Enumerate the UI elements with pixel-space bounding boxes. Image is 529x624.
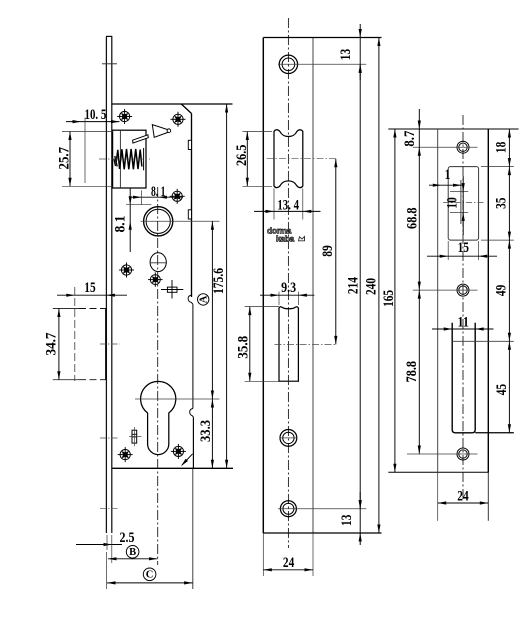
dim 25.7 line — [69, 132, 71, 187]
dim 13 top line — [359, 24, 361, 80]
hidden slot bottom edge — [53, 379, 79, 381]
plate ext ticks — [106, 535, 108, 550]
screw hole mid — [280, 430, 297, 447]
fixing cross — [161, 289, 183, 291]
faceplate top edge — [106, 35, 112, 37]
centreline — [287, 18, 289, 548]
strike hole 1 — [457, 141, 469, 153]
dim 34.7 line — [58, 309, 60, 380]
dim 35 line — [508, 167, 510, 241]
dim 49 ext — [481, 239, 514, 241]
dim 15 line — [57, 294, 127, 296]
svg-text:kaba: kaba — [276, 234, 294, 244]
slot bottom extension — [475, 432, 514, 434]
svg-text:10: 10 — [444, 197, 460, 208]
label A — [198, 294, 209, 305]
dim 10 line — [462, 176, 464, 235]
svg-text:B: B — [129, 547, 136, 558]
svg-text:26.5: 26.5 — [234, 145, 250, 167]
case right edge lower — [192, 417, 194, 468]
svg-text:1: 1 — [445, 167, 451, 183]
dim 8.1 h line — [131, 196, 184, 198]
guide oval — [150, 253, 166, 272]
dim 24 line — [263, 569, 313, 571]
hole2 centreline — [413, 289, 478, 291]
dim 15 line — [427, 255, 497, 257]
svg-text:68.8: 68.8 — [405, 207, 421, 229]
deadbolt slot — [452, 323, 475, 433]
follower hole — [144, 207, 173, 236]
dim 35.8 line — [249, 307, 251, 382]
hole bottom centreline — [278, 508, 366, 510]
extension line x85 — [84, 118, 86, 184]
corner leader arrow — [182, 454, 193, 465]
hole mid tick — [280, 437, 298, 439]
latch spring — [116, 149, 142, 169]
faceplate edge (front) — [105, 36, 107, 533]
latch head wedge — [152, 125, 170, 138]
svg-text:13: 13 — [338, 49, 354, 60]
svg-text:9.3: 9.3 — [281, 280, 296, 296]
faceplate left edge — [262, 38, 264, 534]
hole1 centreline — [413, 146, 478, 148]
hole centre tick top — [102, 63, 117, 65]
case top edge — [112, 103, 233, 105]
svg-text:C: C — [146, 570, 154, 581]
dim 1 leader — [429, 184, 463, 186]
screw C — [170, 189, 185, 204]
screw A — [117, 109, 132, 124]
dim 2.5 leader — [76, 544, 122, 546]
cam detail rect — [132, 430, 137, 443]
edge notch 2 — [188, 210, 191, 219]
svg-text:8.1: 8.1 — [113, 216, 129, 233]
screw G — [171, 444, 186, 459]
dim 25.7 ext bottom — [62, 185, 113, 187]
latch cutout — [274, 130, 303, 188]
slot top line — [452, 340, 514, 342]
dim 35.8 ext — [245, 306, 279, 308]
dim 10 ext lines — [450, 191, 468, 193]
latch cutout centreline — [267, 158, 337, 160]
dim 214 line — [359, 64, 361, 508]
deadbolt centreline — [275, 343, 337, 345]
svg-text:15: 15 — [84, 280, 95, 296]
label B — [126, 546, 139, 559]
svg-text:33.3: 33.3 — [198, 420, 214, 442]
dim C line — [107, 582, 193, 584]
hole centre tick lower2 — [100, 508, 118, 510]
case bottom edge — [112, 467, 233, 469]
svg-text:13: 13 — [339, 515, 355, 526]
latch head tip circle — [167, 129, 171, 133]
cylinder centreline h — [135, 398, 220, 400]
svg-text:13. 4: 13. 4 — [277, 197, 299, 213]
latch tail bar — [133, 135, 149, 143]
label C — [143, 568, 156, 581]
svg-text:11: 11 — [458, 315, 469, 331]
svg-text:10. 5: 10. 5 — [85, 107, 107, 123]
faceplate right edge — [312, 38, 314, 534]
svg-text:240: 240 — [363, 278, 379, 295]
svg-text:214: 214 — [346, 277, 362, 294]
left edge extension — [262, 533, 264, 576]
dim 15 ext — [447, 241, 449, 260]
svg-text:15: 15 — [458, 240, 469, 256]
dim 175.6 line — [226, 104, 228, 468]
edge notch 3 — [188, 295, 193, 304]
dim 10.5 leader — [66, 121, 120, 123]
follower centreline h — [141, 220, 220, 222]
spring centreline — [99, 158, 150, 160]
svg-text:18: 18 — [494, 142, 510, 153]
faceplate bottom edge — [263, 532, 381, 534]
right edge extension — [487, 472, 489, 521]
dim 35 ext — [481, 166, 514, 168]
hole centre tick lower1 — [100, 437, 118, 439]
dim 49 line — [508, 240, 510, 341]
slot centre tick on plate — [100, 343, 120, 345]
svg-text:8.7: 8.7 — [402, 130, 418, 146]
latch opening — [448, 167, 478, 241]
main centreline v — [157, 187, 159, 565]
screw hole bottom — [280, 501, 296, 517]
strike hole 3 — [457, 448, 469, 460]
right edge extension — [312, 533, 314, 576]
svg-text:45: 45 — [494, 384, 510, 395]
svg-text:175.6: 175.6 — [211, 268, 227, 294]
svg-text:78.8: 78.8 — [404, 361, 420, 383]
strike centreline — [462, 115, 464, 500]
screw B — [171, 112, 186, 127]
hole3 centreline — [407, 453, 478, 455]
dim 45 line — [508, 341, 510, 433]
strike left edge — [437, 129, 439, 472]
dim 8.1 v line — [129, 188, 131, 252]
strike bottom edge — [388, 471, 489, 473]
screw F — [118, 447, 133, 462]
case corner chamfer — [181, 104, 191, 114]
dim 8.1 h ext — [141, 190, 143, 204]
dim 240 line — [378, 38, 380, 534]
dim 8.1 v ext — [126, 204, 151, 206]
svg-text:24: 24 — [457, 489, 469, 505]
euro cylinder hole — [141, 381, 176, 454]
dim 9.3 ext — [278, 292, 280, 305]
spring end hooks — [114, 156, 117, 167]
hidden slot top edge — [53, 308, 79, 310]
svg-text:165: 165 — [381, 290, 397, 307]
dim 26.5 ext — [243, 131, 273, 133]
dim A/33.3 shared line — [211, 221, 213, 468]
edge notch 1 — [188, 140, 191, 149]
faceplate edge (back) — [111, 36, 113, 533]
dim 11 line — [432, 328, 494, 330]
deadbolt cutout — [279, 307, 298, 382]
screw E — [119, 263, 134, 278]
case right extension for C — [192, 468, 194, 589]
dim B line — [108, 558, 158, 560]
case right edge upper — [191, 114, 193, 298]
strike hole 2 — [457, 284, 469, 296]
left edge extension — [437, 472, 439, 521]
dim 9.3 line — [260, 294, 314, 296]
svg-text:35: 35 — [494, 198, 510, 209]
case right edge mid — [192, 304, 194, 408]
svg-text:A: A — [198, 295, 209, 303]
dim 13.4 ext — [273, 189, 275, 220]
svg-text:34.7: 34.7 — [44, 332, 60, 355]
dim 18 line — [508, 129, 510, 167]
spring anchor plate — [143, 148, 145, 170]
svg-text:2.5: 2.5 — [120, 530, 135, 546]
svg-text:49: 49 — [494, 285, 510, 296]
dim 165 line — [394, 129, 396, 472]
svg-text:24: 24 — [283, 555, 295, 571]
hidden slot face — [105, 309, 107, 380]
edge notch 4 — [190, 409, 194, 418]
dim 13.4 line — [254, 210, 321, 212]
strike top edge — [388, 128, 518, 130]
dim 25.7 ext top — [62, 131, 113, 133]
svg-text:25.7: 25.7 — [56, 147, 72, 170]
hidden slot dashed centreline — [74, 287, 76, 381]
hole top centreline — [278, 63, 366, 65]
opening centre dashes — [443, 202, 485, 204]
dim 24 strike line — [438, 502, 489, 504]
strike right edge — [487, 129, 489, 472]
screw D — [148, 272, 163, 287]
dim 26.5 line — [246, 132, 248, 187]
latch tab line — [460, 180, 462, 224]
dim 89 line — [335, 159, 337, 345]
oval tick — [150, 262, 167, 264]
svg-text:89: 89 — [320, 245, 336, 257]
svg-text:35.8: 35.8 — [235, 336, 251, 359]
screw hole top — [279, 55, 297, 73]
dim 13 bottom line — [359, 492, 361, 545]
faceplate top edge — [263, 37, 381, 39]
spring box — [113, 130, 146, 188]
dim 8.7/68.8/78.8 shared line — [418, 109, 420, 454]
spring box inner line — [119, 130, 121, 188]
